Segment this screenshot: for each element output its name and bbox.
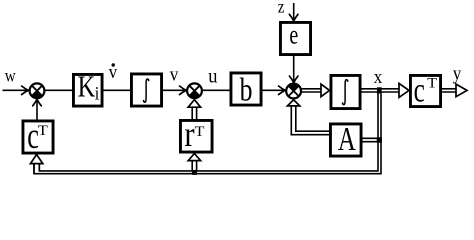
summing junction S1: [30, 83, 45, 98]
open arrowhead into S3 bottom: [287, 100, 299, 106]
vector wire rT up to S2 (double shaft): [192, 107, 196, 119]
junction dot at trunk/A: [377, 137, 382, 142]
wire cT2 to S1: [36, 100, 38, 120]
node v label: [170, 64, 179, 85]
svg-text:T: T: [38, 123, 49, 139]
summing junction S2: [187, 83, 202, 98]
svg-text:A: A: [338, 120, 356, 158]
arrowhead into summer S3 top: [289, 76, 298, 83]
wire w input: [3, 89, 28, 91]
wire b to summer S3: [263, 89, 285, 91]
svg-text:r: r: [184, 115, 194, 155]
open arrowhead into S2 bottom: [188, 100, 200, 108]
wire z input: [293, 3, 295, 21]
vector wire A feedback to S3 (inner line): [296, 106, 329, 132]
block e: [280, 21, 310, 55]
vector wire cT to y (double line): [442, 89, 456, 92]
open arrowhead into cT: [399, 83, 409, 97]
open arrowhead output y: [456, 84, 467, 97]
open arrowhead into I2: [321, 84, 330, 97]
svg-text:u: u: [208, 65, 217, 87]
svg-text:w: w: [5, 65, 16, 86]
svg-text:z: z: [278, 0, 285, 17]
svg-text:i: i: [95, 82, 100, 104]
arrowhead into S1 bottom: [33, 99, 42, 106]
wire I1 to summer S2: [163, 89, 186, 91]
node u label: [208, 65, 217, 87]
node w label: [5, 65, 16, 86]
node x label: [374, 66, 383, 87]
wire S1 to Ki: [44, 89, 72, 91]
wire S2 to b: [202, 89, 230, 91]
arrowhead into block e: [289, 14, 298, 21]
svg-text:b: b: [240, 73, 253, 109]
arrowhead into summer S3: [279, 86, 286, 95]
open arrowhead into cT2 bottom: [30, 155, 42, 164]
vector wire up to rT (double shaft): [192, 160, 196, 171]
node x junction dot: [377, 87, 382, 93]
block A: [330, 120, 361, 158]
wire Ki to integrator I1: [104, 89, 131, 91]
arrowhead into summer S2: [180, 86, 187, 95]
svg-text:T: T: [195, 124, 205, 140]
arrowhead into summer S1: [22, 86, 29, 95]
vector wire trunk to A (double line): [363, 138, 379, 141]
block cT feedback: [23, 116, 53, 156]
svg-text:T: T: [427, 75, 437, 91]
svg-text:y: y: [453, 63, 462, 84]
svg-text:v: v: [170, 64, 179, 85]
summing junction S3: [286, 84, 301, 99]
block Ki: [73, 69, 102, 106]
block b: [231, 73, 261, 109]
vector shaft up into cT2 (double shaft): [34, 163, 39, 173]
svg-text:x: x: [374, 66, 383, 87]
block integrator I2: [331, 75, 360, 108]
block rT: [180, 115, 212, 155]
node y label: [453, 63, 462, 84]
wire e to summer S3: [293, 56, 295, 82]
block integrator I1: [131, 74, 161, 106]
svg-text:e: e: [289, 21, 298, 51]
vector wire S3 to I2 (double line): [302, 89, 321, 92]
svg-text:c: c: [414, 70, 425, 109]
vector wire I2 to cT (double line): [362, 89, 400, 92]
vector trunk from node x down and along bottom (inner line): [39, 94, 378, 171]
svg-text:K: K: [78, 69, 96, 103]
open arrowhead into rT bottom: [188, 154, 200, 161]
node z label: [278, 0, 285, 17]
vector trunk from node x down and along bottom (outer line): [34, 94, 381, 174]
vector wire A feedback to S3 (outer line): [291, 106, 329, 135]
junction dot at trunk/rT tap: [192, 170, 197, 175]
block cT output: [410, 70, 440, 109]
node vdot label: [109, 61, 118, 82]
